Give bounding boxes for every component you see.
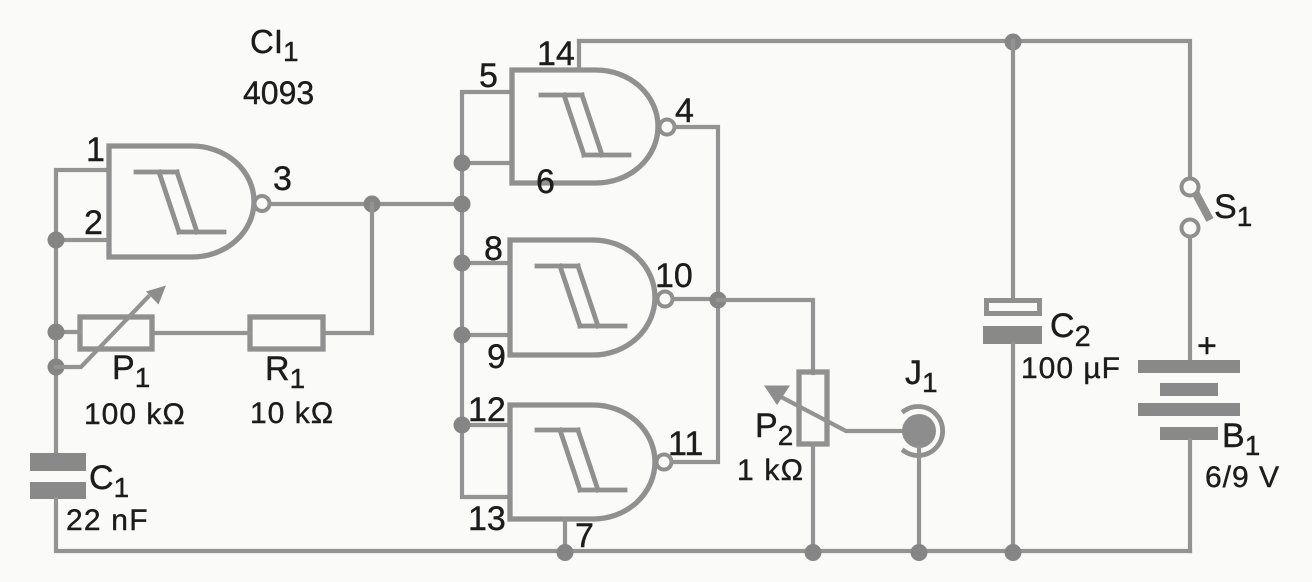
node: top rail junction xyxy=(1005,34,1022,51)
svg-text:100 µF: 100 µF xyxy=(1021,352,1121,385)
wire: P2 bottom lead xyxy=(811,444,815,551)
wire: pin6 stub xyxy=(462,161,512,165)
NAND gate CI1c pins 8,9 to 10 xyxy=(510,240,655,355)
node: tie junction xyxy=(710,292,727,309)
svg-text:13: 13 xyxy=(468,500,506,538)
node: pin2 junction xyxy=(48,232,65,249)
wire: input bus of gates xyxy=(462,92,512,497)
svg-text:1: 1 xyxy=(86,131,105,169)
wire: output 3 to node xyxy=(270,202,462,206)
NAND gate CI1a pins 1,2 to 3 xyxy=(109,146,254,257)
wire: pin9 stub xyxy=(462,333,508,337)
wire: output tie vertical xyxy=(672,127,718,462)
wire: tie to P2 xyxy=(718,300,813,373)
svg-text:6/9 V: 6/9 V xyxy=(1205,461,1280,494)
svg-text:4: 4 xyxy=(675,92,694,130)
wire: P1-R1 link xyxy=(152,331,250,335)
switch S1 bottom contact xyxy=(1182,220,1199,237)
node: C2 bottom junction xyxy=(1005,544,1022,561)
svg-text:2: 2 xyxy=(84,204,103,242)
capacitor C1 xyxy=(30,453,86,471)
resistor R1 xyxy=(250,317,323,349)
wire: P2 wiper from J1 xyxy=(783,398,903,431)
wire: P1 left lead xyxy=(56,330,80,334)
wire: battery to rail xyxy=(1188,440,1192,551)
svg-text:3: 3 xyxy=(273,160,292,198)
node: output bubble pin10 xyxy=(658,292,673,307)
wire: pin8 stub xyxy=(462,261,508,265)
wire: S1 to battery xyxy=(1188,237,1192,360)
node: bus junction pin3 xyxy=(454,196,471,213)
wire: R1 right lead xyxy=(323,331,372,335)
svg-text:11: 11 xyxy=(668,425,703,463)
wire: feedback vertical xyxy=(370,204,374,333)
wire: bottom rail xyxy=(565,549,1190,553)
svg-text:10 kΩ: 10 kΩ xyxy=(250,397,334,430)
wire: C1 bottom lead to rail xyxy=(56,499,565,551)
switch S1 lever xyxy=(1195,192,1210,220)
node: bus junction pin8 xyxy=(454,255,471,272)
node: output bubble pin3 xyxy=(255,196,270,211)
node A junction xyxy=(364,196,381,213)
node: P1 left junction xyxy=(48,324,65,341)
wire: pin10 to tie xyxy=(673,297,718,301)
NAND gate CI1d pins 12,13 to 11 xyxy=(510,405,655,519)
node: J1 bottom junction xyxy=(911,544,928,561)
jack J1 outer ring xyxy=(904,407,943,456)
wire: left bus upper xyxy=(56,170,107,453)
node: output bubble pin11 xyxy=(657,455,672,470)
svg-text:9: 9 xyxy=(487,338,506,376)
jack J1 inner tip xyxy=(902,414,936,448)
capacitor C2 negative plate xyxy=(983,326,1042,344)
node: pin7 junction xyxy=(557,544,574,561)
wire: top rail xyxy=(579,41,1190,178)
node: output bubble pin4 xyxy=(660,120,675,135)
svg-text:1 kΩ: 1 kΩ xyxy=(737,454,804,487)
wire: pin12 stub xyxy=(462,423,508,427)
svg-text:100 kΩ: 100 kΩ xyxy=(84,398,186,431)
NAND gate CI1b pins 5,6 to 4 xyxy=(512,70,658,183)
node: P2 bottom junction xyxy=(805,544,822,561)
svg-text:12: 12 xyxy=(468,391,506,429)
svg-text:10: 10 xyxy=(655,257,693,295)
wire: J1 lead xyxy=(917,447,921,551)
wire: C2 top lead xyxy=(1011,41,1015,298)
wire: P1 wiper arrow xyxy=(56,297,148,367)
node: bus junction pin9 xyxy=(454,327,471,344)
capacitor C2 positive plate xyxy=(987,301,1040,314)
svg-text:4093: 4093 xyxy=(243,75,314,111)
svg-text:8: 8 xyxy=(484,230,503,268)
wire: C2 bottom lead xyxy=(1011,344,1015,551)
svg-text:6: 6 xyxy=(536,163,555,201)
svg-text:22 nF: 22 nF xyxy=(66,504,149,537)
battery B1 plates xyxy=(1138,360,1240,440)
svg-text:+: + xyxy=(1197,327,1217,365)
svg-text:14: 14 xyxy=(537,35,575,73)
potentiometer P2 xyxy=(799,372,827,444)
node: bus junction pin12 xyxy=(454,417,471,434)
wire: pin7 ground xyxy=(563,519,567,551)
svg-text:7: 7 xyxy=(575,517,594,555)
wire: pin14 supply xyxy=(577,41,581,70)
svg-text:5: 5 xyxy=(479,57,498,95)
potentiometer P1 xyxy=(80,317,152,349)
node: bus junction pin6 xyxy=(454,155,471,172)
node: P1 wiper junction xyxy=(48,359,65,376)
wire: pin2 stub xyxy=(56,238,107,242)
switch S1 top contact xyxy=(1182,179,1199,196)
